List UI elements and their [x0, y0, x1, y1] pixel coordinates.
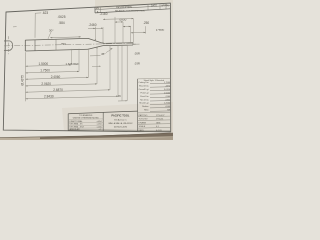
svg-text:Point Dia: Point Dia	[140, 95, 149, 98]
upper extension lines	[94, 27, 96, 41]
svg-text:Radius: Radius	[142, 106, 148, 108]
end view vertical centerline	[7, 36, 9, 55]
svg-text:1.2500: 1.2500	[164, 103, 171, 105]
body internal line at 35	[34, 40, 36, 51]
subtle wash over title block zone	[62, 102, 173, 133]
svg-text:Helix: Helix	[144, 110, 149, 112]
svg-text:.584: .584	[59, 21, 65, 25]
svg-text:PACIFIC TOOL: PACIFIC TOOL	[111, 114, 129, 118]
svg-text:.623: .623	[42, 11, 48, 15]
left extension line	[25, 52, 27, 101]
svg-text:1.7500: 1.7500	[164, 82, 171, 84]
svg-text:.0625: .0625	[58, 15, 66, 19]
thin tip section	[103, 42, 133, 45]
svg-text:30°: 30°	[49, 29, 54, 33]
svg-text:RV: RV	[96, 8, 100, 10]
svg-text:DATE: DATE	[151, 5, 157, 8]
arrows touching taper profile	[95, 39, 96, 41]
dim row below taper	[90, 55, 101, 57]
svg-text:.2160: .2160	[165, 96, 171, 98]
dim line above body	[50, 36, 81, 39]
svg-text:1.5000: 1.5000	[39, 62, 49, 66]
svg-text:.2160: .2160	[100, 12, 108, 16]
dim 2.0620	[26, 84, 98, 86]
paper background	[0, 0, 173, 140]
svg-text:2.4060: 2.4060	[51, 75, 61, 79]
svg-text:1.7500: 1.7500	[40, 69, 50, 73]
svg-text:RELEASED FOR PRODUCTION: RELEASED FOR PRODUCTION	[115, 10, 145, 13]
svg-text:.4375: .4375	[165, 85, 171, 87]
svg-text:2.0620: 2.0620	[41, 82, 51, 86]
dim 2.8430	[26, 96, 119, 99]
revision table	[94, 7, 96, 13]
svg-text:Neck Dia: Neck Dia	[140, 99, 149, 101]
small tick upper left	[13, 26, 17, 28]
svg-text:Cutting Dia: Cutting Dia	[138, 81, 149, 84]
svg-text:.0500: .0500	[165, 106, 171, 108]
svg-text:1°TPF: 1°TPF	[156, 28, 164, 32]
svg-text:45°: 45°	[101, 52, 106, 56]
svg-text:2.6870: 2.6870	[53, 88, 63, 92]
svg-text:±1°: ±1°	[99, 129, 102, 131]
svg-text:.06: .06	[117, 94, 121, 98]
svg-text:.750: .750	[60, 42, 66, 46]
dim 2.6870	[26, 90, 111, 92]
bottom paper-edge shadow band	[0, 133, 173, 140]
tip end arrows	[134, 43, 140, 45]
shaft body outline	[25, 38, 88, 40]
svg-text:.250: .250	[143, 21, 149, 25]
dim 1.7500	[26, 71, 80, 73]
svg-text:WALLA WALLA, WA 99362: WALLA WALLA, WA 99362	[108, 122, 133, 125]
right mini spec table	[138, 77, 171, 80]
svg-text:.05R: .05R	[134, 52, 140, 56]
svg-text:Flute Lgt: Flute Lgt	[141, 91, 149, 94]
svg-text:2.8430: 2.8430	[44, 95, 54, 99]
part centerline	[4, 43, 133, 46]
svg-text:3.0310: 3.0310	[164, 89, 171, 91]
svg-text:355 Avenue C: 355 Avenue C	[114, 119, 127, 122]
paper edge line	[0, 133, 173, 138]
dim 1.5000	[26, 65, 72, 66]
svg-text:Shank Lgt: Shank Lgt	[139, 102, 149, 105]
taper to tip	[88, 38, 103, 43]
leader .623	[34, 13, 36, 38]
svg-text:1.625 REF: 1.625 REF	[66, 62, 80, 66]
title block outline	[68, 111, 137, 114]
upper dim rows	[88, 27, 95, 29]
svg-text:Overall Lgt: Overall Lgt	[139, 88, 149, 91]
svg-text:ANGULAR: ANGULAR	[70, 128, 80, 131]
dim 2.4060	[26, 77, 89, 79]
svg-text:Ø.4375: Ø.4375	[21, 75, 25, 86]
drawing frame border	[3, 3, 170, 132]
slight tan wash above top border right	[95, 0, 173, 9]
svg-text:.0930: .0930	[165, 99, 171, 101]
svg-text:.03R: .03R	[134, 62, 140, 66]
svg-text:Shank Dia: Shank Dia	[139, 85, 149, 87]
body internal line at 56	[55, 39, 57, 50]
svg-text:DESCRIPTION: DESCRIPTION	[116, 7, 132, 9]
end view rounded end	[4, 41, 13, 50]
far right lower extensions	[121, 45, 123, 101]
title rows right	[138, 111, 171, 114]
svg-text:(509)525-4080: (509)525-4080	[114, 127, 128, 129]
svg-text:.0930: .0930	[119, 17, 127, 21]
svg-text:1.5000: 1.5000	[164, 92, 171, 94]
svg-text:RH: RH	[167, 110, 170, 112]
svg-text:APPRV: APPRV	[161, 4, 169, 7]
